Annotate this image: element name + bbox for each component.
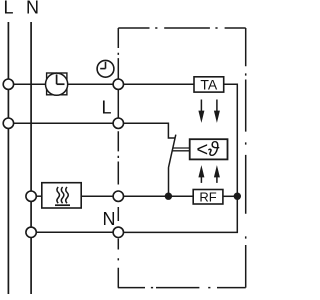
svg-text:N: N	[26, 0, 39, 18]
svg-text:L: L	[4, 0, 14, 18]
svg-text:<ϑ: <ϑ	[196, 139, 220, 161]
svg-text:TA: TA	[200, 76, 218, 92]
svg-text:L: L	[102, 98, 112, 118]
svg-text:RF: RF	[199, 189, 216, 204]
svg-text:N: N	[103, 209, 116, 229]
